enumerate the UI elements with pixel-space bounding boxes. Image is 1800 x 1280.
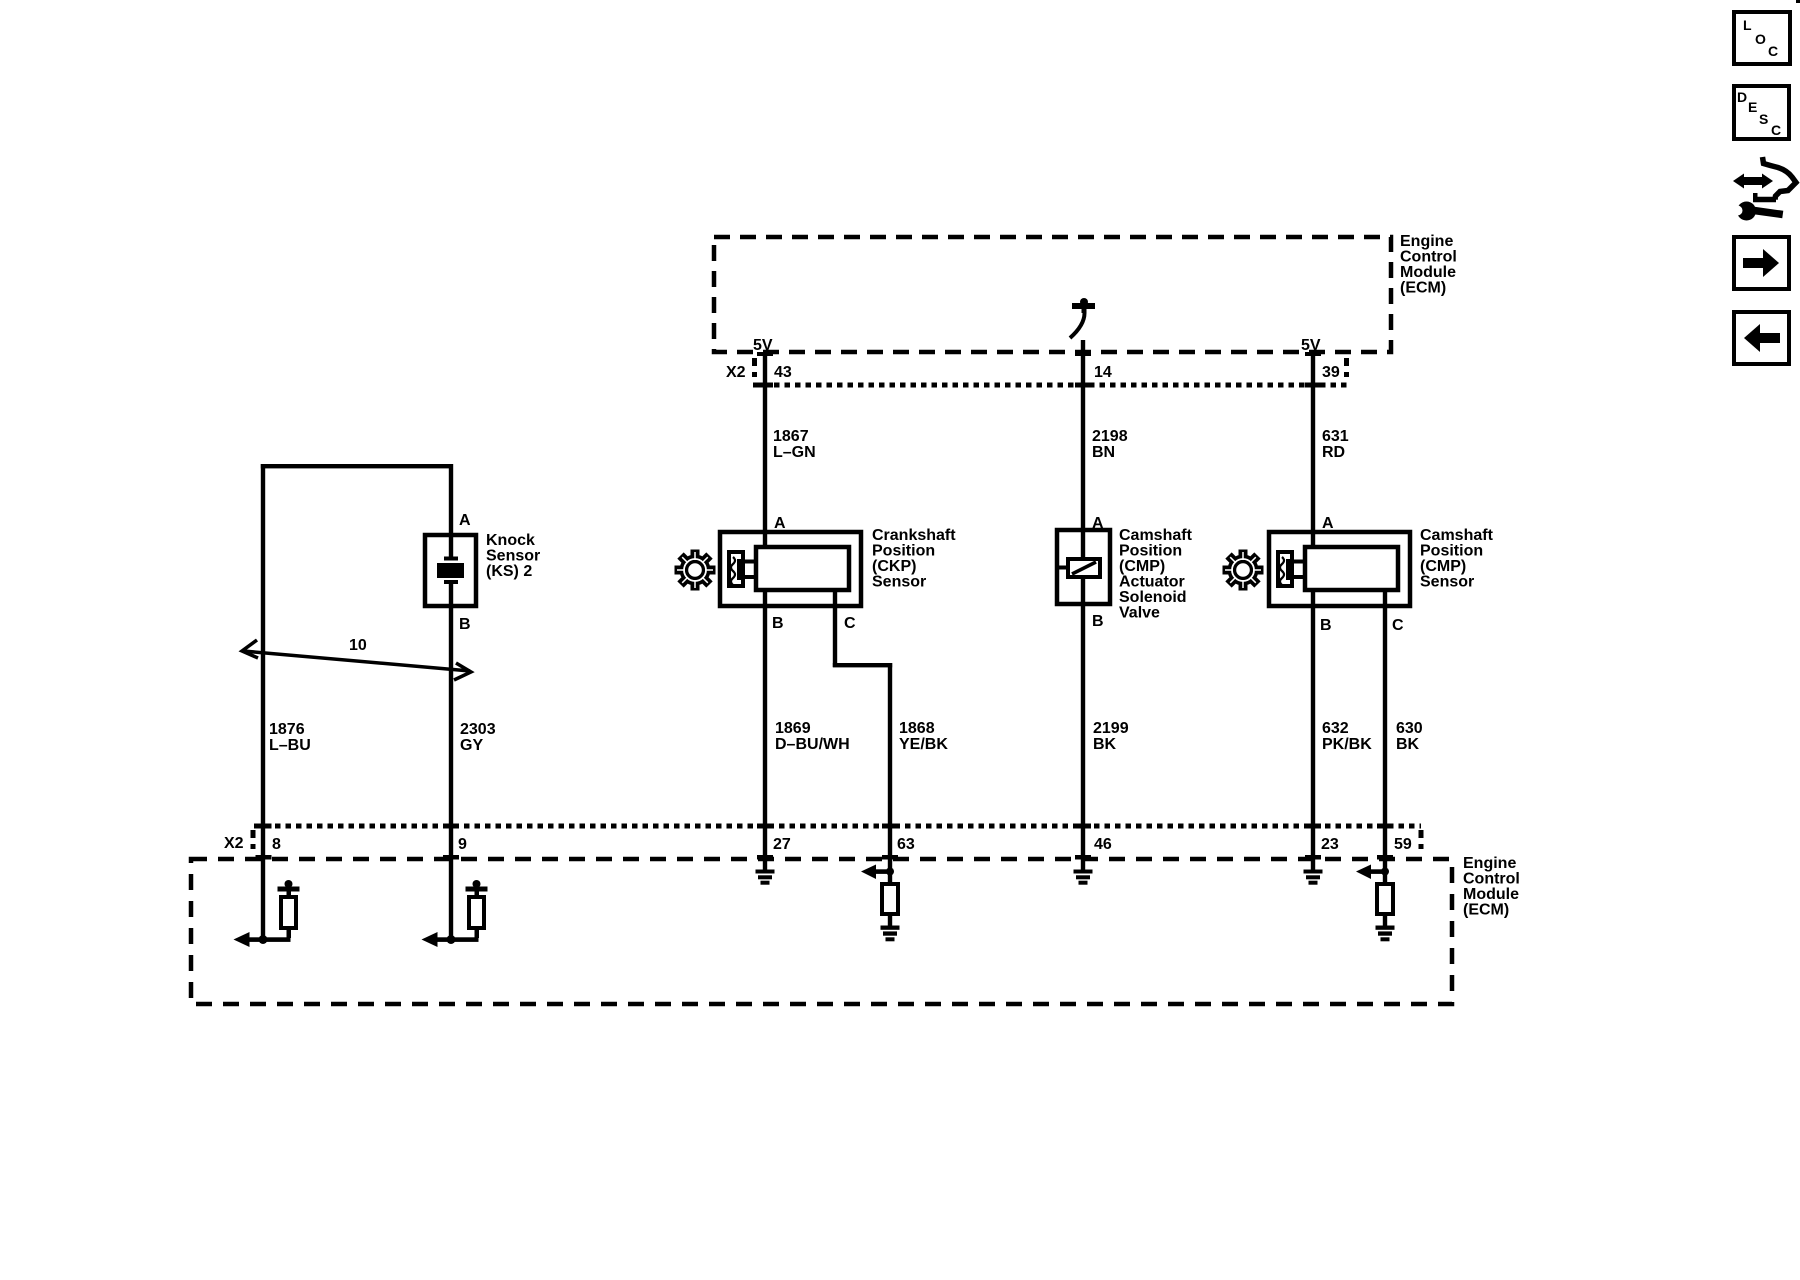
ECM top label (1400, 233, 1457, 297)
svg-text:1869: 1869 (775, 720, 811, 737)
svg-text:Control: Control (1400, 249, 1457, 266)
svg-text:L: L (1743, 17, 1752, 33)
svg-text:B: B (772, 615, 784, 632)
svg-text:630: 630 (1396, 720, 1423, 737)
CMP sensor label (1420, 527, 1494, 591)
svg-text:S: S (1759, 111, 1768, 127)
ECM internal driver symbol above pin 14 (1070, 298, 1095, 338)
svg-text:Position: Position (1119, 543, 1182, 560)
svg-text:1868: 1868 (899, 720, 935, 737)
svg-text:39: 39 (1322, 364, 1340, 381)
svg-text:L–BU: L–BU (269, 737, 311, 754)
wire 1867 label (773, 428, 816, 461)
ECM bottom label (1463, 855, 1520, 919)
svg-text:59: 59 (1394, 836, 1412, 853)
svg-text:D–BU/WH: D–BU/WH (775, 736, 850, 753)
pin 59 termination (arrow, resistor, ground) (1356, 865, 1395, 942)
page corner mark (1796, 0, 1800, 3)
CMP inner box (1305, 547, 1398, 590)
wire 632 PK/BK (1311, 590, 1315, 870)
svg-text:(ECM): (ECM) (1400, 280, 1446, 297)
svg-text:YE/BK: YE/BK (899, 736, 948, 753)
svg-text:X2: X2 (224, 835, 244, 852)
connector X2 dotted line (top) (753, 358, 1348, 385)
svg-text:B: B (459, 616, 471, 633)
wire 1869 D-BU/WH (763, 590, 767, 870)
svg-text:2199: 2199 (1093, 720, 1129, 737)
svg-text:PK/BK: PK/BK (1322, 736, 1372, 753)
LOC icon box (1734, 12, 1790, 64)
camshaft position sensor outer box (1269, 532, 1410, 606)
solenoid coil symbol (1059, 559, 1100, 577)
svg-text:B: B (1320, 617, 1332, 634)
svg-text:(KS) 2: (KS) 2 (486, 563, 532, 580)
svg-text:10: 10 (349, 637, 367, 654)
ground (pin 23) (1304, 870, 1323, 885)
svg-text:B: B (1092, 613, 1104, 630)
ground (pin 46) (1074, 870, 1093, 885)
svg-text:C: C (1771, 122, 1781, 138)
svg-text:632: 632 (1322, 720, 1349, 737)
knock sensor KS2 box (425, 535, 476, 606)
knock sensor lead wire (KS pin A drop) (449, 464, 453, 559)
svg-text:43: 43 (774, 364, 792, 381)
pin 8 termination (arrow + pull-up resistor) (234, 880, 300, 947)
wire 1867 L-GN (757, 352, 773, 549)
svg-text:BN: BN (1092, 444, 1115, 461)
pin 9 termination (arrow + pull-up resistor) (422, 880, 488, 947)
wire 1876 L-BU (left leg + top jumper) (261, 464, 453, 942)
svg-text:A: A (459, 512, 471, 529)
CMP actuator solenoid valve outer box (1057, 530, 1110, 604)
svg-text:X2: X2 (726, 364, 746, 381)
CKP inner box (756, 547, 849, 590)
svg-text:Position: Position (1420, 543, 1483, 560)
svg-text:Sensor: Sensor (872, 574, 926, 591)
gear icon (CKP) (675, 550, 716, 591)
svg-text:2198: 2198 (1092, 428, 1128, 445)
wire 630 BK (1383, 590, 1387, 872)
svg-text:Camshaft: Camshaft (1420, 527, 1494, 544)
wire 2199 label (1093, 720, 1129, 753)
CMP actuator solenoid valve label (1119, 527, 1193, 622)
gear icon (CMP) (1223, 550, 1264, 591)
wire 1868 label (899, 720, 948, 753)
svg-text:C: C (844, 615, 856, 632)
wire 2198 label (1092, 428, 1128, 461)
svg-text:C: C (1768, 43, 1778, 59)
svg-text:Valve: Valve (1119, 605, 1160, 622)
svg-text:Module: Module (1400, 264, 1456, 281)
svg-text:5V: 5V (753, 337, 773, 354)
svg-text:14: 14 (1094, 364, 1112, 381)
svg-text:BK: BK (1093, 736, 1117, 753)
svg-text:(CKP): (CKP) (872, 558, 916, 575)
wire 1868 YE/BK (833, 590, 892, 872)
svg-text:Knock: Knock (486, 532, 535, 549)
svg-text:BK: BK (1396, 736, 1420, 753)
wire 2303 label (460, 721, 496, 754)
CKP sensor label (872, 527, 956, 591)
wire 2303 GY (449, 584, 453, 942)
svg-text:Sensor: Sensor (1420, 574, 1474, 591)
back arrow icon box (1734, 312, 1789, 364)
wiring repair icon (double arrow, hook, wrench) (1733, 157, 1797, 221)
CKP pickup element (729, 552, 756, 586)
svg-text:Engine: Engine (1463, 855, 1516, 872)
pin 63 termination (arrow, resistor, ground) (861, 865, 900, 942)
svg-text:C: C (1392, 617, 1404, 634)
svg-text:631: 631 (1322, 428, 1349, 445)
svg-text:Solenoid: Solenoid (1119, 589, 1187, 606)
wire 1869 label (775, 720, 850, 753)
svg-text:1876: 1876 (269, 721, 305, 738)
wire 1876 label (269, 721, 311, 754)
svg-text:O: O (1755, 31, 1766, 47)
svg-text:Camshaft: Camshaft (1119, 527, 1193, 544)
svg-text:E: E (1748, 99, 1757, 115)
svg-text:RD: RD (1322, 444, 1345, 461)
svg-text:5V: 5V (1301, 337, 1321, 354)
svg-text:(CMP): (CMP) (1119, 558, 1165, 575)
ground (pin 27) (756, 870, 775, 885)
svg-text:(ECM): (ECM) (1463, 902, 1509, 919)
twisted pair symbol 10 (242, 640, 471, 680)
svg-text:A: A (1322, 515, 1334, 532)
wire 631 label (1322, 428, 1349, 461)
pin ticks at bottom connector (256, 824, 1394, 860)
svg-text:A: A (774, 515, 786, 532)
wire 631 RD (1305, 352, 1321, 549)
svg-text:(CMP): (CMP) (1420, 558, 1466, 575)
svg-text:L–GN: L–GN (773, 444, 816, 461)
svg-text:Control: Control (1463, 871, 1520, 888)
svg-text:9: 9 (458, 836, 467, 853)
svg-text:8: 8 (272, 836, 281, 853)
svg-text:D: D (1737, 89, 1747, 105)
crankshaft position sensor U1 outer box (720, 532, 861, 606)
knock sensor element (437, 557, 464, 585)
DESC icon box (1734, 86, 1789, 139)
ECM top dashed box (714, 237, 1391, 352)
svg-text:Sensor: Sensor (486, 548, 540, 565)
svg-text:1867: 1867 (773, 428, 809, 445)
svg-text:Crankshaft: Crankshaft (872, 527, 956, 544)
wire 2198 BN (1075, 340, 1091, 559)
CMP pickup element (1278, 552, 1305, 586)
svg-text:27: 27 (773, 836, 791, 853)
svg-text:2303: 2303 (460, 721, 496, 738)
connector X2 dotted line (bottom) (253, 826, 1421, 853)
knock sensor label (486, 532, 540, 580)
svg-text:GY: GY (460, 737, 483, 754)
svg-text:Actuator: Actuator (1119, 574, 1185, 591)
svg-text:63: 63 (897, 836, 915, 853)
svg-text:Module: Module (1463, 886, 1519, 903)
wire 2199 BK (1081, 577, 1085, 870)
svg-text:46: 46 (1094, 836, 1112, 853)
ECM bottom dashed box (191, 859, 1452, 1004)
svg-text:Position: Position (872, 543, 935, 560)
forward arrow icon box (1734, 237, 1789, 289)
wire 632 label (1322, 720, 1372, 753)
wire 630 label (1396, 720, 1423, 753)
svg-text:23: 23 (1321, 836, 1339, 853)
svg-text:Engine: Engine (1400, 233, 1453, 250)
